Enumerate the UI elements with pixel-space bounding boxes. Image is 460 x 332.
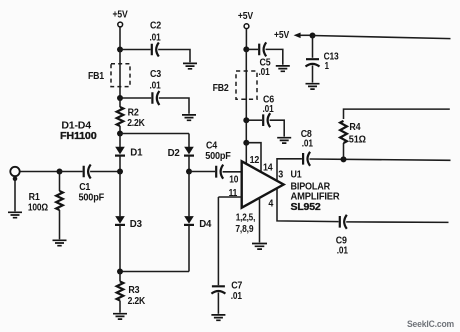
wire ring bottom — [120, 271, 189, 273]
svg-text:100Ω: 100Ω — [28, 203, 48, 214]
node junction D2-D4 — [186, 169, 192, 175]
pin 10 label — [229, 174, 238, 185]
svg-text:14: 14 — [263, 162, 273, 173]
ground C3 — [182, 115, 196, 120]
svg-text:.01: .01 — [231, 291, 242, 302]
wire pin 3 output up — [277, 159, 302, 181]
resistor R1 100 ohm — [28, 172, 63, 240]
node junction R1 — [57, 169, 63, 175]
svg-text:.01: .01 — [259, 67, 270, 78]
resistor R4 51 ohm — [340, 109, 450, 159]
svg-text:C1: C1 — [79, 182, 90, 193]
svg-text:D2: D2 — [168, 148, 181, 159]
svg-text:51Ω: 51Ω — [349, 134, 366, 145]
svg-text:.01: .01 — [263, 104, 274, 115]
amp ground pins 1,2,5,7,8,9 — [235, 198, 259, 242]
svg-text:+5V: +5V — [113, 10, 128, 21]
ground C7 — [211, 315, 225, 320]
resistor R3 2.2K — [117, 272, 146, 313]
+5V terminal right — [244, 24, 249, 29]
ferrite bead FB1 — [88, 64, 130, 87]
svg-text:1: 1 — [325, 61, 330, 72]
svg-text:4: 4 — [268, 198, 273, 209]
capacitor C4 500pF — [189, 140, 242, 178]
capacitor C3 — [120, 69, 189, 114]
node junction C13 — [310, 33, 316, 39]
svg-text:+5V: +5V — [238, 11, 253, 22]
svg-text:2.2K: 2.2K — [128, 296, 146, 307]
diode D1 — [115, 134, 143, 172]
capacitor C6 — [246, 95, 284, 137]
svg-text:.01: .01 — [302, 138, 313, 149]
svg-text:FB1: FB1 — [88, 71, 104, 82]
+5V supply label left — [113, 10, 128, 21]
svg-text:500pF: 500pF — [79, 192, 105, 203]
ground R3 — [113, 314, 127, 319]
+5V terminal left — [118, 22, 123, 27]
svg-text:U1: U1 — [291, 170, 302, 181]
pin 3 label — [278, 170, 283, 181]
node junction C2 — [117, 47, 123, 53]
wire pin 4 output down — [277, 188, 339, 221]
node junction ring top — [117, 131, 123, 137]
ground input terminal — [8, 179, 22, 218]
wire +5V line to right edge — [313, 36, 451, 39]
capacitor C8 .01 — [301, 129, 451, 166]
wire +5V terminal to node C2 — [119, 27, 121, 49]
ground R1 — [53, 240, 67, 245]
svg-text:D1: D1 — [130, 147, 143, 158]
svg-text:D4: D4 — [199, 219, 212, 230]
capacitor C5 — [246, 42, 282, 78]
+5V supply label right — [238, 11, 253, 22]
ground C13 — [306, 84, 320, 89]
ground amp — [252, 244, 267, 250]
input terminal — [10, 167, 19, 181]
svg-text:SL952: SL952 — [291, 202, 322, 213]
wire pin11 down to C7 — [217, 197, 219, 285]
node junction C3 — [117, 95, 123, 101]
svg-text:10: 10 — [229, 174, 238, 185]
svg-text:.01: .01 — [150, 33, 161, 44]
svg-text:FB2: FB2 — [213, 83, 229, 94]
svg-text:C2: C2 — [150, 21, 161, 32]
svg-text:+5V: +5V — [274, 30, 289, 41]
node junction pin12 — [243, 140, 249, 146]
pin 4 label — [268, 198, 273, 209]
svg-text:.01: .01 — [337, 246, 348, 257]
diode D2 — [168, 134, 194, 172]
ferrite bead FB2 — [213, 71, 257, 99]
svg-text:3: 3 — [278, 170, 283, 181]
svg-text:R2: R2 — [128, 107, 139, 118]
capacitor C13 1 — [306, 36, 340, 83]
wire +5V terminal to node C5 — [245, 29, 247, 50]
svg-text:C4: C4 — [206, 140, 217, 151]
svg-text:.01: .01 — [150, 81, 161, 92]
svg-text:11: 11 — [229, 188, 238, 199]
svg-text:2.2K: 2.2K — [127, 118, 145, 129]
node junction R4 output — [341, 156, 347, 162]
capacitor C1 500pF — [60, 165, 121, 204]
svg-text:1,2,5,: 1,2,5, — [236, 212, 256, 223]
diode D4 — [184, 172, 212, 272]
capacitor C7 .01 — [211, 280, 242, 313]
ground C5 — [276, 66, 290, 71]
ground C2 — [183, 63, 197, 68]
node junction D1-D3 — [117, 169, 123, 175]
svg-text:D1-D4: D1-D4 — [61, 121, 91, 132]
svg-text:C7: C7 — [231, 280, 242, 291]
svg-text:FH1100: FH1100 — [60, 131, 97, 142]
+5V arrow label top right — [274, 30, 313, 41]
resistor R2 2.2K — [117, 98, 146, 134]
wire pin 14 — [246, 143, 273, 174]
amp labels U1 BIPOLAR AMPLIFIER SL952 — [291, 170, 341, 213]
svg-text:500pF: 500pF — [205, 151, 231, 162]
wire node C6 to pin12 node — [245, 120, 247, 143]
wire input to node R1 — [20, 171, 59, 173]
node junction C6 — [243, 117, 249, 123]
pin 11 wire — [218, 188, 241, 199]
svg-text:R4: R4 — [349, 122, 360, 133]
svg-text:7,8,9: 7,8,9 — [235, 224, 253, 235]
watermark SeekIC.com — [407, 319, 454, 330]
wire node C2 through FB1 to node C3 — [119, 50, 121, 99]
node junction C5 — [243, 46, 249, 52]
ground C6 — [277, 138, 291, 143]
capacitor C9 .01 — [336, 215, 449, 257]
wire ring top — [120, 133, 189, 135]
wire node C5 through FB2 to node C6 — [245, 49, 247, 120]
svg-text:12: 12 — [250, 155, 260, 166]
svg-text:R3: R3 — [128, 285, 139, 296]
svg-text:C3: C3 — [150, 69, 161, 80]
capacitor C2 — [120, 21, 190, 63]
svg-text:R1: R1 — [29, 192, 40, 203]
svg-text:SeekIC.com: SeekIC.com — [407, 319, 454, 330]
op-amp U1 triangle — [242, 161, 284, 207]
label D1-D4 FH1100 — [60, 121, 97, 143]
wire pin 12 — [246, 143, 259, 167]
node junction ring bottom — [117, 269, 123, 275]
diode D3 — [115, 172, 142, 272]
svg-text:D3: D3 — [130, 219, 143, 230]
